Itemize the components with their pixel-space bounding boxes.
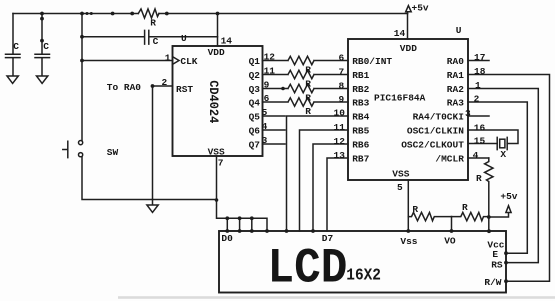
wire RB6 to LCD D6 [313, 144, 348, 231]
svg-text:C: C [13, 41, 19, 52]
svg-text:RS: RS [491, 260, 503, 271]
svg-text:RB4: RB4 [352, 111, 369, 122]
svg-text:14: 14 [221, 35, 233, 46]
svg-text:4: 4 [473, 150, 479, 161]
wire RA3 to E [468, 102, 527, 253]
wire RA2 to RS [468, 89, 538, 263]
node D0-D3 ties [225, 216, 229, 220]
svg-text:CD4024: CD4024 [206, 80, 221, 124]
node RST [151, 84, 155, 88]
node D6 [311, 229, 315, 233]
svg-text:LCD: LCD [268, 241, 348, 297]
svg-text:U: U [181, 33, 187, 44]
svg-text:RB0/INT: RB0/INT [352, 56, 392, 67]
node E [504, 251, 508, 255]
wire Q6 stub [263, 129, 286, 131]
svg-text:RA2: RA2 [447, 84, 464, 95]
svg-text:6: 6 [339, 52, 345, 63]
node LCD Vss [406, 229, 410, 233]
svg-text:18: 18 [474, 66, 486, 77]
node rail/pin14 [216, 12, 220, 16]
svg-text:RB7: RB7 [352, 153, 369, 164]
wire RB5 to LCD D5 [300, 130, 349, 231]
node C3 branch [80, 35, 84, 39]
svg-text:VSS: VSS [392, 168, 409, 179]
wire CLK net [82, 60, 173, 62]
wire RA0 stub [468, 60, 489, 62]
svg-text:RA3: RA3 [447, 97, 464, 108]
svg-text:Q2: Q2 [249, 70, 261, 81]
wire Q1 to RB0 with resistor R [263, 56, 349, 64]
svg-text:D0: D0 [221, 233, 233, 244]
svg-text:CLK: CLK [180, 56, 197, 67]
svg-text:R: R [476, 173, 482, 184]
svg-text:PIC16F84A: PIC16F84A [374, 93, 426, 104]
ground (main) [147, 200, 158, 213]
svg-text:12: 12 [334, 136, 346, 147]
capacitor C1 [6, 14, 21, 76]
svg-text:RB3: RB3 [352, 97, 369, 108]
svg-text:R: R [150, 17, 156, 28]
svg-text:RA1: RA1 [447, 70, 464, 81]
svg-text:10: 10 [334, 108, 346, 119]
svg-text:+5v: +5v [500, 191, 517, 202]
wire pin14 CD4024 [217, 14, 219, 47]
svg-text:R: R [305, 64, 311, 75]
svg-text:SW: SW [107, 147, 119, 158]
wire RST net [153, 86, 173, 200]
svg-text:Q4: Q4 [249, 97, 261, 108]
svg-text:R: R [305, 78, 311, 89]
svg-text:RA4/T0CKI: RA4/T0CKI [413, 111, 464, 122]
svg-text:3: 3 [465, 108, 471, 119]
wire Q3 to RB2 with resistor R [263, 84, 349, 92]
svg-text:1: 1 [165, 52, 171, 63]
svg-text:11: 11 [334, 122, 346, 133]
wire Q2 to RB1 with resistor R [263, 70, 349, 78]
wire MCLR node to LCD Vcc [488, 217, 490, 231]
svg-text:RST: RST [176, 84, 193, 95]
svg-text:17: 17 [474, 52, 486, 63]
svg-text:To RA0: To RA0 [107, 82, 142, 93]
node RS [504, 261, 508, 265]
svg-text:9: 9 [264, 80, 270, 91]
svg-text:+5v: +5v [412, 2, 429, 13]
svg-text:E: E [492, 249, 498, 260]
IC U PIC16F84A [348, 39, 468, 180]
resistor R (VO-Vcc) [452, 212, 489, 220]
svg-text:Q5: Q5 [249, 111, 261, 122]
node rail/C2 [40, 12, 44, 16]
wire RB4 to LCD D4 [287, 116, 349, 231]
node MCLR/+5v [487, 215, 491, 219]
crystal X [497, 137, 507, 149]
svg-text:OSC1/CLKIN: OSC1/CLKIN [407, 125, 464, 136]
svg-text:VSS: VSS [208, 147, 225, 158]
svg-text:13: 13 [334, 150, 346, 161]
wire switch to ground rail [82, 157, 217, 200]
svg-text:12: 12 [264, 52, 276, 63]
node rail/switch [80, 12, 84, 16]
svg-text:4: 4 [262, 121, 268, 132]
resistor R (Vss-VO) [408, 212, 451, 220]
wire VO to LCD [451, 217, 453, 231]
wire D0-D3 tie stubs [227, 218, 252, 231]
svg-text:15: 15 [474, 136, 486, 147]
node rail [111, 12, 115, 16]
wire Q5 stub [263, 115, 286, 117]
wire Q7 stub [263, 143, 286, 145]
svg-text:16: 16 [474, 122, 486, 133]
node ground/VSS [215, 198, 219, 202]
clock input triangle [173, 57, 180, 65]
svg-text:9: 9 [339, 94, 345, 105]
svg-text:2: 2 [162, 77, 168, 88]
svg-text:14: 14 [394, 28, 406, 39]
svg-text:R: R [305, 106, 311, 117]
wire Q4 to RB3 with resistor R [263, 98, 349, 106]
svg-text:1: 1 [475, 80, 481, 91]
svg-text:R/W: R/W [484, 277, 501, 288]
svg-text:OSC2/CLKOUT: OSC2/CLKOUT [401, 139, 464, 150]
wire to capacitor C3 [82, 36, 144, 38]
svg-text:VDD: VDD [400, 43, 417, 54]
node LCD Vcc [487, 229, 491, 233]
svg-text:Q6: Q6 [249, 125, 261, 136]
svg-text:RB5: RB5 [352, 125, 369, 136]
wire OSC1 to crystal [468, 130, 518, 144]
svg-text:R: R [462, 202, 468, 213]
node CLK branch [80, 59, 84, 63]
svg-text:VDD: VDD [208, 47, 225, 58]
svg-text:RB1: RB1 [352, 70, 369, 81]
wire RB7 to LCD D7 [327, 158, 348, 231]
switch SW [63, 141, 68, 157]
svg-text:C: C [153, 36, 159, 47]
IC U CD4024 [173, 46, 263, 156]
capacitor C3 [145, 30, 149, 44]
svg-text:3: 3 [262, 135, 268, 146]
wire /MCLR [468, 157, 489, 159]
power +5v (top) [406, 6, 412, 14]
capacitor C2 [35, 14, 50, 76]
wire C3 to pin14 node [149, 36, 217, 38]
wire rail to switch vertical [81, 14, 83, 141]
svg-text:U: U [456, 25, 462, 36]
svg-text:Q1: Q1 [249, 56, 261, 67]
svg-text:R: R [412, 204, 418, 215]
node Q3 wire [281, 87, 285, 91]
wire RA1 to R/W [468, 75, 550, 282]
svg-text:6: 6 [264, 93, 270, 104]
wire top +5v rail [13, 13, 408, 15]
svg-text:16X2: 16X2 [346, 266, 381, 285]
svg-text:7: 7 [218, 158, 224, 169]
svg-text:2: 2 [474, 94, 480, 105]
svg-text:RA0: RA0 [447, 56, 464, 67]
node R/W [504, 279, 508, 283]
bottom scan smear [118, 296, 555, 299]
svg-text:Q7: Q7 [249, 139, 261, 150]
wire OSC2 to crystal [468, 143, 497, 145]
wire PIC VSS to LCD [407, 180, 409, 231]
power +5v (bottom) [489, 206, 511, 217]
svg-text:5: 5 [397, 182, 403, 193]
svg-text:7: 7 [339, 66, 345, 77]
ground (C1) [7, 76, 18, 83]
svg-text:VO: VO [444, 236, 456, 247]
wire pin14 PIC [407, 14, 409, 40]
LCD module box [219, 231, 506, 293]
svg-text:Vss: Vss [400, 236, 417, 247]
ground (C2) [37, 76, 48, 83]
svg-text:/MCLR: /MCLR [435, 153, 464, 164]
svg-text:5: 5 [262, 107, 268, 118]
resistor R (top rail) [138, 9, 159, 18]
node D4 [285, 229, 289, 233]
resistor R (MCLR pullup) [485, 158, 493, 217]
svg-text:R: R [305, 92, 311, 103]
node LCD VO [450, 229, 454, 233]
svg-text:8: 8 [339, 80, 345, 91]
svg-text:RB2: RB2 [352, 84, 369, 95]
wire RA4 stub [468, 115, 489, 117]
wire VSS CD4024 down [217, 156, 268, 231]
svg-text:C: C [43, 41, 49, 52]
svg-text:Q3: Q3 [249, 84, 261, 95]
svg-text:X: X [500, 149, 506, 160]
svg-text:11: 11 [264, 66, 276, 77]
svg-text:RB6: RB6 [352, 139, 369, 150]
